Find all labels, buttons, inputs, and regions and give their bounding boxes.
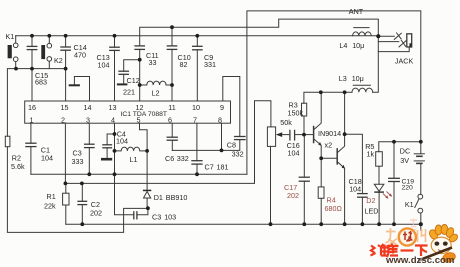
junction (65.6,68.6) bbox=[64, 67, 68, 71]
wire pin2 bbox=[64, 123, 66, 183]
junction (320.8,92.3) bbox=[319, 90, 323, 94]
capacitor C7 bbox=[192, 123, 202, 174]
svg-text:L3: L3 bbox=[339, 74, 347, 83]
svg-text:10: 10 bbox=[192, 103, 200, 112]
svg-text:220: 220 bbox=[402, 185, 414, 192]
junction (197.3,35.8) bbox=[195, 34, 199, 38]
junction (378.3,36.2) bbox=[376, 34, 380, 38]
wire K lower rail bbox=[7, 69, 148, 233]
LED D2 bbox=[374, 184, 392, 224]
svg-text:L1: L1 bbox=[130, 155, 138, 164]
svg-text:221: 221 bbox=[123, 88, 135, 97]
capacitor C2 bbox=[78, 183, 87, 224]
junction (394,141.8) bbox=[392, 140, 396, 144]
junction (379.1,224.2) bbox=[377, 222, 381, 226]
transistor Q1 bbox=[304, 92, 322, 158]
junction (420.8,141.8) bbox=[419, 140, 423, 144]
junction (344.6,224.2) bbox=[343, 222, 347, 226]
junction (304.3,224.2) bbox=[302, 222, 306, 226]
junction (65.6,35.8) bbox=[64, 34, 68, 38]
svg-text:DC: DC bbox=[400, 147, 410, 156]
svg-text:D2: D2 bbox=[366, 196, 375, 205]
capacitor C12 bbox=[117, 60, 140, 86]
resistor R3 bbox=[302, 103, 307, 134]
capacitor C11 bbox=[135, 46, 144, 101]
svg-text:K1: K1 bbox=[6, 32, 15, 41]
capacitor C17 bbox=[299, 135, 309, 225]
svg-text:7: 7 bbox=[193, 116, 197, 125]
svg-text:BB910: BB910 bbox=[166, 193, 188, 202]
capacitor C5 bbox=[134, 212, 137, 219]
svg-text:202: 202 bbox=[90, 208, 102, 217]
svg-text:82: 82 bbox=[180, 60, 188, 69]
svg-text:103: 103 bbox=[164, 213, 176, 222]
capacitor C3 bbox=[85, 123, 94, 174]
capacitor C18 bbox=[345, 134, 368, 224]
junction (344.6,134.2) bbox=[343, 132, 347, 136]
junction (420.8,224.2) bbox=[419, 222, 423, 226]
capacitor C4 bbox=[101, 134, 115, 161]
svg-text:www.dzsc.com: www.dzsc.com bbox=[385, 255, 454, 266]
resistor R5 bbox=[376, 152, 383, 185]
junction (139.7,85) bbox=[138, 83, 142, 87]
svg-text:5.6k: 5.6k bbox=[11, 162, 25, 171]
wire top rail1 bbox=[16, 35, 379, 37]
svg-text:IN9014: IN9014 bbox=[318, 129, 341, 138]
svg-text:104: 104 bbox=[288, 148, 300, 157]
junction (221.5,150.4) bbox=[220, 149, 224, 153]
watermark badge bbox=[399, 228, 416, 245]
wire ANT outer line bbox=[247, 11, 421, 174]
svg-text:K2: K2 bbox=[54, 56, 63, 65]
svg-text:332: 332 bbox=[177, 154, 189, 163]
ground pin14 bbox=[69, 77, 90, 102]
svg-text:10μ: 10μ bbox=[352, 41, 364, 50]
svg-text:14: 14 bbox=[84, 103, 92, 112]
svg-text:181: 181 bbox=[217, 162, 229, 171]
svg-text:4: 4 bbox=[111, 116, 115, 125]
watermark ghost char bbox=[386, 228, 427, 246]
svg-text:C12: C12 bbox=[127, 76, 140, 85]
junction (344.6,92.3) bbox=[343, 90, 347, 94]
svg-text:104: 104 bbox=[98, 61, 110, 70]
inductor L3 bbox=[352, 85, 373, 92]
battery BT1 DC 3V bbox=[414, 154, 424, 195]
junction (16,68.6) bbox=[14, 67, 18, 71]
capacitor C1 bbox=[26, 123, 36, 174]
junction (32,35.8) bbox=[30, 34, 34, 38]
svg-text:50k: 50k bbox=[280, 118, 292, 127]
wire pin4 column bbox=[115, 123, 148, 215]
svg-text:22k: 22k bbox=[44, 201, 56, 210]
junction (114.5,174.3) bbox=[113, 172, 117, 176]
svg-text:470: 470 bbox=[74, 51, 86, 60]
svg-text:3V: 3V bbox=[400, 156, 409, 165]
svg-text:683: 683 bbox=[35, 78, 47, 87]
resistor R2 bbox=[5, 136, 10, 147]
svg-text:3: 3 bbox=[86, 116, 90, 125]
wire rail2 antenna branch bbox=[140, 19, 379, 46]
switch K1 bbox=[8, 36, 18, 69]
junction (114.5,134) bbox=[113, 132, 117, 136]
wire L3 row bbox=[304, 36, 378, 103]
svg-text:K1: K1 bbox=[405, 200, 414, 209]
svg-text:12: 12 bbox=[136, 103, 144, 112]
svg-text:x2: x2 bbox=[325, 141, 333, 150]
wire pin5 jog bbox=[140, 123, 148, 151]
svg-text:680Ω: 680Ω bbox=[325, 204, 343, 213]
svg-text:C8: C8 bbox=[227, 140, 236, 149]
junction (32,68.6) bbox=[30, 67, 34, 71]
svg-text:104: 104 bbox=[41, 154, 53, 163]
svg-text:150k: 150k bbox=[288, 108, 304, 117]
svg-text:333: 333 bbox=[72, 157, 84, 166]
svg-text:C3: C3 bbox=[152, 213, 161, 222]
IC U1 TDA7088T box bbox=[25, 101, 231, 123]
svg-text:104: 104 bbox=[349, 185, 361, 194]
inductor L2 bbox=[140, 81, 172, 85]
junction (49.3,35.8) bbox=[47, 34, 51, 38]
svg-text:L2: L2 bbox=[152, 89, 160, 98]
wire rail A bbox=[31, 173, 247, 175]
IC pin numbers top row bbox=[28, 103, 224, 125]
svg-text:ANT: ANT bbox=[349, 7, 364, 16]
switch K2 bbox=[41, 36, 51, 69]
wire rail B bbox=[65, 101, 271, 184]
junction (321.2,158.3) bbox=[319, 156, 323, 160]
svg-text:6: 6 bbox=[168, 116, 172, 125]
junction (147.9,208.2) bbox=[146, 206, 150, 210]
resistor R1 bbox=[63, 183, 69, 224]
svg-text:11: 11 bbox=[168, 103, 175, 112]
svg-text:15: 15 bbox=[61, 103, 69, 112]
wire supply row bbox=[379, 142, 421, 152]
capacitor C15 bbox=[27, 36, 37, 69]
junction (81.9,183.4) bbox=[80, 182, 84, 186]
inductor L1 bbox=[115, 147, 148, 151]
junction (114.5,150.9) bbox=[113, 149, 117, 153]
watermark text weiku yixia bbox=[371, 244, 428, 258]
wire pin8 / net F bbox=[172, 123, 221, 150]
junction (304,134.6) bbox=[302, 133, 306, 137]
junction (394,224.2) bbox=[392, 222, 396, 226]
svg-text:1: 1 bbox=[30, 116, 34, 125]
svg-text:13: 13 bbox=[109, 103, 117, 112]
svg-text:104: 104 bbox=[116, 137, 128, 146]
svg-text:332: 332 bbox=[232, 150, 244, 159]
junction (362.4,224.2) bbox=[361, 222, 365, 226]
inductor L4 bbox=[353, 28, 372, 36]
svg-text:1k: 1k bbox=[367, 149, 375, 158]
svg-text:C6: C6 bbox=[165, 154, 174, 163]
junction (147.1,150.9) bbox=[145, 149, 149, 153]
junction (89.3,174.3) bbox=[87, 172, 91, 176]
svg-text:10μ: 10μ bbox=[352, 74, 364, 83]
junction (139.7,59.7) bbox=[138, 58, 142, 62]
junction (114.5,35.8) bbox=[113, 34, 117, 38]
svg-text:202: 202 bbox=[287, 191, 299, 200]
capacitor C13 bbox=[110, 36, 119, 101]
jack J1 bbox=[378, 33, 412, 52]
svg-text:5: 5 bbox=[137, 116, 141, 125]
wire ground rail W1 bbox=[66, 223, 421, 225]
svg-text:8: 8 bbox=[218, 116, 222, 125]
junction (172,85) bbox=[170, 83, 174, 87]
switch K1 right bbox=[415, 194, 423, 230]
junction (270.5,224.2) bbox=[269, 222, 273, 226]
capacitor C16 bbox=[290, 130, 304, 140]
wire pin16 stub bbox=[31, 69, 33, 101]
svg-text:9: 9 bbox=[220, 103, 224, 112]
capacitor C6 bbox=[167, 123, 177, 150]
capacitor C19 bbox=[389, 142, 400, 224]
svg-text:L4: L4 bbox=[339, 41, 347, 50]
svg-text:D1: D1 bbox=[154, 193, 163, 202]
svg-text:33: 33 bbox=[149, 58, 157, 67]
watermark mascot bbox=[419, 225, 460, 265]
varactor D1 bbox=[143, 151, 151, 208]
svg-text:LED: LED bbox=[365, 206, 379, 215]
svg-text:C7: C7 bbox=[205, 162, 214, 171]
junction (197,174.3) bbox=[195, 172, 199, 176]
wire pin9 bridge to C8 bbox=[223, 77, 240, 137]
potentiometer RP 50k bbox=[267, 127, 290, 224]
capacitor C10 bbox=[167, 27, 176, 101]
junction (172,27.2) bbox=[170, 25, 174, 29]
junction (65.4,183.4) bbox=[64, 182, 68, 186]
svg-text:R1: R1 bbox=[47, 192, 56, 201]
capacitor C14 bbox=[61, 36, 70, 69]
svg-text:16: 16 bbox=[28, 103, 36, 112]
resistor R4 bbox=[318, 158, 324, 224]
wire pin15 stub bbox=[65, 69, 67, 101]
junction (321.2,224.2) bbox=[319, 222, 323, 226]
svg-text:331: 331 bbox=[204, 60, 216, 69]
capacitor C8 bbox=[222, 137, 246, 151]
junction (82.3,224.2) bbox=[80, 222, 84, 226]
svg-text:2: 2 bbox=[61, 116, 65, 125]
svg-text:JACK: JACK bbox=[395, 57, 414, 66]
svg-text:IC1 TDA 7088T: IC1 TDA 7088T bbox=[121, 111, 168, 118]
capacitor C9 bbox=[193, 36, 202, 101]
transistor Q2 bbox=[321, 92, 345, 224]
